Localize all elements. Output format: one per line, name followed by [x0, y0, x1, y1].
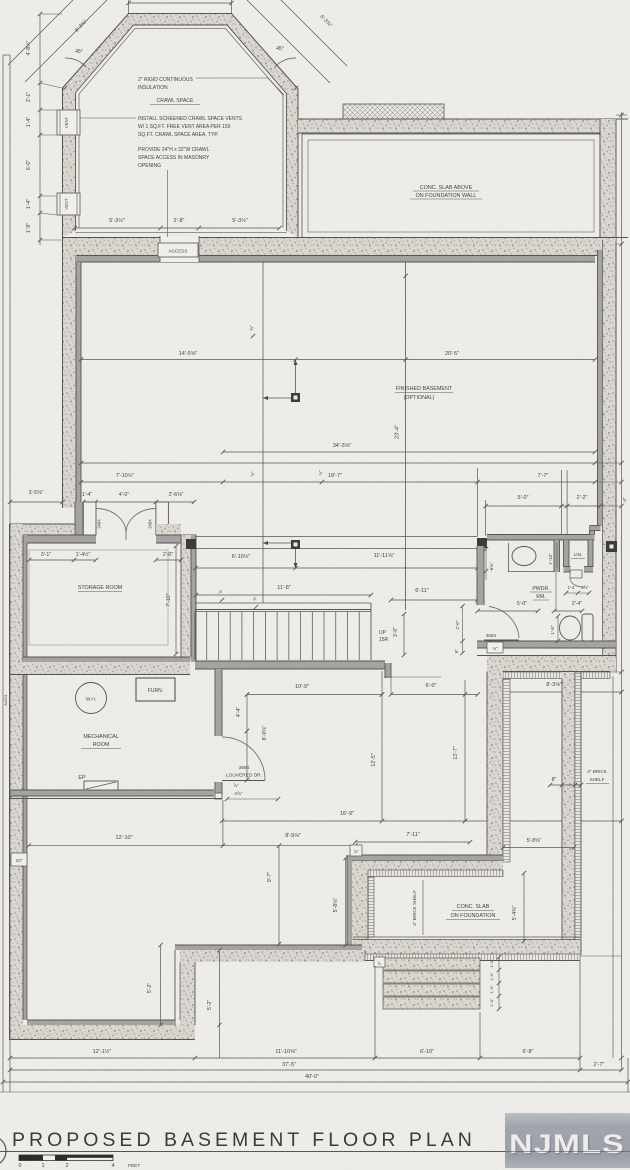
courtyard right wall	[562, 672, 575, 952]
lin closet	[554, 540, 560, 572]
pwdr bottom wall	[477, 641, 616, 648]
title bubble	[0, 1136, 6, 1166]
bottom dim row 1	[10, 1057, 580, 1059]
toilet	[560, 616, 581, 640]
basement top wall	[63, 238, 617, 255]
crawl dims	[75, 227, 280, 229]
step wall vertical	[347, 855, 352, 951]
bottom left room right wall	[175, 945, 362, 950]
scale bar	[19, 1155, 113, 1161]
bottom dim row 3	[3, 1081, 628, 1083]
pwdr top wall	[477, 538, 487, 548]
access opening	[160, 236, 199, 262]
left dim chain	[39, 14, 41, 245]
basement right wall	[602, 240, 616, 655]
bottom wall	[27, 1020, 175, 1025]
WH	[76, 683, 107, 714]
left exterior wall	[10, 524, 23, 1040]
storage right wall	[181, 535, 191, 662]
staircase	[195, 602, 371, 604]
hall dims	[247, 694, 382, 696]
vanity+sink	[508, 543, 510, 572]
courtyard bottom wall	[353, 936, 580, 938]
courtyard top wall	[487, 656, 616, 672]
left wall 10 box	[11, 853, 27, 866]
23-4 dim	[405, 262, 407, 610]
beam over stairs	[196, 535, 478, 537]
courtyard left wall upper	[487, 656, 503, 862]
storage side dims	[29, 559, 96, 561]
angled dims top-right	[230, 0, 330, 83]
step wall (hall south)	[352, 855, 503, 861]
step dims	[498, 957, 500, 1009]
room dims	[160, 945, 162, 1025]
long dim rows	[223, 451, 595, 453]
post stair top right	[291, 540, 300, 549]
courtyard dims	[503, 847, 574, 849]
louvered door	[222, 780, 265, 782]
crawl space walls	[63, 14, 299, 238]
pwdr left wall + door	[477, 546, 484, 605]
vent 1	[57, 110, 80, 135]
stair dims	[196, 567, 478, 569]
basement dims	[81, 359, 595, 361]
furnace	[136, 678, 175, 701]
bottom dim row 2	[10, 1069, 622, 1071]
left extension lines	[2, 55, 4, 1092]
storage bottom wall	[23, 657, 190, 662]
vent 2	[57, 193, 80, 215]
angled dims top-left	[25, 0, 131, 82]
steps	[383, 958, 480, 970]
right extension line	[621, 112, 623, 1070]
right dim stack	[486, 505, 600, 507]
post right	[606, 541, 617, 552]
chimney hatch	[343, 104, 444, 119]
post at storage wall	[186, 539, 196, 549]
njmls watermark	[0, 0, 1, 1]
basement left wall	[63, 254, 76, 508]
bottom extension lines	[580, 955, 622, 957]
mech room right wall	[215, 669, 222, 736]
top extension	[128, 0, 130, 13]
center post	[262, 262, 264, 603]
conc slab walls	[298, 119, 616, 133]
storage interior dim	[175, 546, 177, 654]
storage room walls	[75, 502, 83, 538]
stairs bottom wall	[195, 661, 385, 669]
mech bottom wall	[10, 790, 214, 796]
storage double door	[83, 502, 96, 535]
